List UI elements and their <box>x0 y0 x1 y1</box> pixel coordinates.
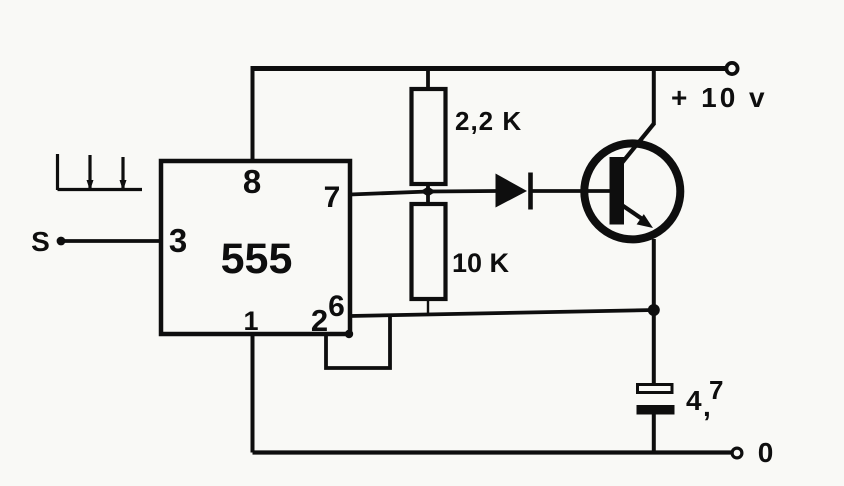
node at box corner pin 2 <box>345 330 353 338</box>
diode D1 with cathode bar <box>496 174 528 208</box>
wire: junction to resistor 10K <box>426 192 430 204</box>
transistor collector diagonal <box>621 124 654 165</box>
svg-text:2: 2 <box>311 303 328 338</box>
wire: capacitor to bottom rail <box>652 414 656 453</box>
wire: pin 1 down to ground rail <box>251 334 255 453</box>
wire: bottom rail <box>253 450 733 454</box>
pulse waveform symbol <box>58 154 143 190</box>
capacitor C1 top plate <box>638 385 673 393</box>
wire: pin 7 to diode <box>350 191 496 195</box>
resistor R1 2,2K <box>412 89 446 184</box>
wire: resistor 2,2K bottom <box>426 184 430 191</box>
IC U1 555 timer box <box>161 161 350 334</box>
svg-text:0: 0 <box>758 437 774 468</box>
wire: collector to top rail <box>652 66 656 125</box>
svg-text:555: 555 <box>221 235 293 283</box>
terminal 0 open circle <box>732 448 742 458</box>
wire: S to pin 3 <box>61 239 161 243</box>
wire: node to capacitor <box>652 310 656 385</box>
svg-text:8: 8 <box>243 163 261 200</box>
wire: resistor 10K bottom to pin6 wire <box>427 299 429 315</box>
svg-text:S: S <box>31 226 50 257</box>
wire: diode to transistor base <box>532 189 610 193</box>
svg-text:6: 6 <box>328 290 345 323</box>
transistor emitter diagonal with arrow <box>621 205 643 220</box>
wire: pin 6 to emitter node <box>350 310 654 316</box>
transistor Q1 base bar <box>610 157 625 225</box>
wire: rail to resistor R1 <box>426 68 430 89</box>
terminal +10v open circle <box>726 63 737 74</box>
svg-text:10 K: 10 K <box>452 248 510 278</box>
wire: +10v top rail <box>252 66 727 71</box>
svg-text:1: 1 <box>243 306 258 336</box>
wire: pin 2 loop to pin 6 line <box>326 315 390 368</box>
wire: pin 8 to top rail <box>251 66 255 161</box>
resistor R2 10K <box>412 204 446 299</box>
svg-text:7: 7 <box>324 181 341 214</box>
svg-text:4: 4 <box>686 385 702 416</box>
capacitor C1 bottom plate <box>637 405 675 415</box>
node S dot <box>57 237 66 246</box>
node junction between resistors <box>420 187 436 197</box>
node junction emitter/pin6 <box>648 304 660 316</box>
svg-text:2,2 K: 2,2 K <box>455 106 522 136</box>
svg-text:7: 7 <box>709 375 723 405</box>
svg-text:3: 3 <box>169 222 187 259</box>
transistor Q1 circle <box>584 143 680 239</box>
svg-text:+ 10 v: + 10 v <box>671 82 768 113</box>
wire: emitter down to node <box>652 239 656 311</box>
